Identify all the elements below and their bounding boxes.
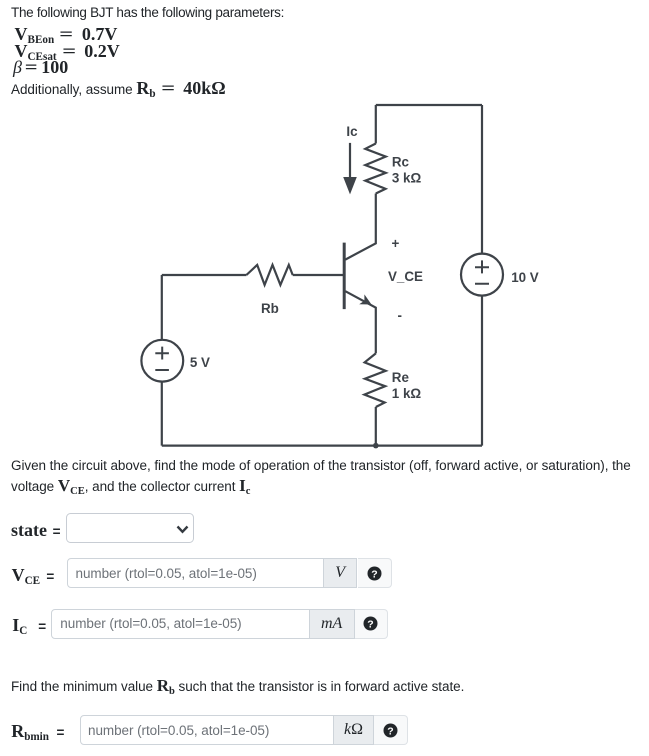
- svg-text:5 V: 5 V: [190, 355, 210, 370]
- svg-text:Rb: Rb: [261, 301, 279, 316]
- svg-text:+: +: [392, 236, 400, 251]
- svg-text:?: ?: [368, 618, 374, 630]
- svg-text:1 kΩ: 1 kΩ: [392, 386, 422, 401]
- svg-text:Re: Re: [392, 370, 409, 385]
- svg-text:3 kΩ: 3 kΩ: [392, 171, 422, 186]
- svg-text:?: ?: [387, 725, 393, 737]
- svg-text:Ic: Ic: [346, 124, 358, 139]
- svg-text:?: ?: [371, 568, 377, 580]
- svg-text:10 V: 10 V: [511, 270, 539, 285]
- svg-text:V_CE: V_CE: [388, 269, 423, 284]
- svg-text:-: -: [398, 308, 402, 323]
- svg-text:Rc: Rc: [392, 154, 410, 169]
